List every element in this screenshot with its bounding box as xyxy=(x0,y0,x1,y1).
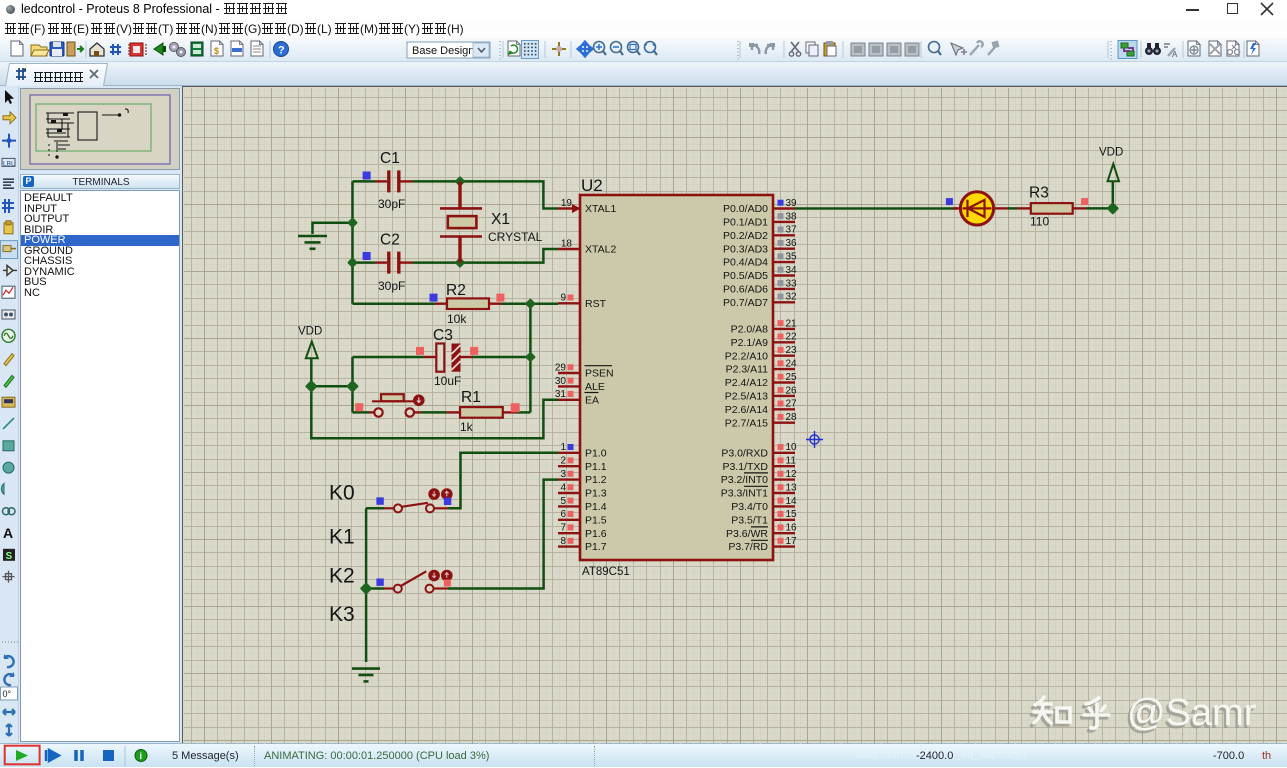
svg-text:3: 3 xyxy=(560,469,566,480)
pin 33 P0.6/AD6 xyxy=(723,278,797,295)
svg-text:P3.6/WR: P3.6/WR xyxy=(726,528,768,540)
wire K2 left xyxy=(366,587,384,590)
svg-text:P1.0: P1.0 xyxy=(585,447,607,459)
menu bar xyxy=(0,19,1287,38)
pin 29 PSEN xyxy=(555,362,614,379)
pin 32 P0.7/AD7 xyxy=(723,292,797,309)
svg-text:18: 18 xyxy=(561,238,573,249)
op-amp? no: microcontroller U2 AT89C51 body xyxy=(580,176,773,578)
wire C3 riser xyxy=(351,357,354,386)
svg-text:U2: U2 xyxy=(581,176,603,195)
svg-text:P0.3/AD3: P0.3/AD3 xyxy=(723,243,768,255)
svg-text:P3.0/RXD: P3.0/RXD xyxy=(721,447,768,459)
pin 36 P0.3/AD3 xyxy=(723,238,797,255)
svg-text:P0.4/AD4: P0.4/AD4 xyxy=(723,257,768,269)
svg-text:P1.6: P1.6 xyxy=(585,528,607,540)
RD overline xyxy=(751,539,768,541)
EA overline xyxy=(585,392,599,394)
LED (yellow, lit) xyxy=(946,192,1008,225)
svg-text:P1.4: P1.4 xyxy=(585,501,607,513)
wire R1 right xyxy=(516,411,530,414)
TERMINALS header xyxy=(20,174,180,189)
main toolbar xyxy=(0,38,1287,62)
svg-text:30pF: 30pF xyxy=(378,197,405,211)
svg-text:PSEN: PSEN xyxy=(585,368,614,380)
push button (reset) xyxy=(355,394,424,416)
pin 2 P1.1 xyxy=(558,456,607,473)
junction C2 tap xyxy=(349,259,357,267)
svg-text:P0.7/AD7: P0.7/AD7 xyxy=(723,297,768,309)
svg-text:P2.4/A12: P2.4/A12 xyxy=(725,377,768,389)
wire C2 right to XTAL2 xyxy=(413,249,559,263)
pin 4 P1.3 xyxy=(558,482,607,499)
svg-text:23: 23 xyxy=(786,345,798,356)
capacitor C2 30pF xyxy=(363,232,413,294)
svg-text:P2.3/A11: P2.3/A11 xyxy=(726,364,769,376)
svg-text:P0.2/AD2: P0.2/AD2 xyxy=(723,230,768,242)
watermark xyxy=(1032,692,1257,737)
INT1 overline xyxy=(744,485,768,487)
pin 28 P2.7/A15 xyxy=(725,412,797,429)
svg-text:P2.7/A15: P2.7/A15 xyxy=(725,417,768,429)
svg-text:8: 8 xyxy=(560,536,566,547)
svg-text:CRYSTAL: CRYSTAL xyxy=(488,230,543,244)
svg-text:A: A xyxy=(3,525,13,541)
pin 35 P0.4/AD4 xyxy=(723,252,797,269)
power terminal VDD (right) xyxy=(1099,147,1123,182)
ground (upper, near C1/C2) xyxy=(298,236,327,249)
wire reset net vertical xyxy=(529,304,532,413)
svg-text:K0: K0 xyxy=(329,482,355,505)
svg-text:22: 22 xyxy=(786,332,798,343)
svg-text:26: 26 xyxy=(786,385,798,396)
pin 15 P3.5/T1 xyxy=(731,509,797,526)
XTAL1 clock-input arrow xyxy=(572,204,581,213)
svg-text:0°: 0° xyxy=(3,689,12,699)
pin 22 P2.1/A9 xyxy=(731,332,797,349)
svg-text:12: 12 xyxy=(786,469,798,480)
svg-text:XTAL1: XTAL1 xyxy=(585,203,616,215)
pin 31 EA xyxy=(555,389,599,406)
pin 21 P2.0/A8 xyxy=(731,318,797,335)
svg-text:37: 37 xyxy=(786,225,798,236)
svg-text:P1.1: P1.1 xyxy=(585,461,607,473)
svg-text:R1: R1 xyxy=(461,389,481,406)
svg-text:P1.3: P1.3 xyxy=(585,488,607,500)
pin 12 P3.2/INT0 xyxy=(721,469,797,486)
svg-text:LBL: LBL xyxy=(3,160,15,167)
svg-text:ALE: ALE xyxy=(585,381,605,393)
overview mini-map xyxy=(20,88,180,170)
pin 16 P3.6/WR xyxy=(726,523,797,540)
svg-text:32: 32 xyxy=(786,292,798,303)
wire VDD link xyxy=(311,385,352,388)
pin 14 P3.4/T0 xyxy=(731,496,797,513)
schematic canvas xyxy=(182,86,1287,743)
svg-text:K1: K1 xyxy=(329,526,355,549)
junction VDD branch node xyxy=(348,382,358,392)
svg-text:P3.5/T1: P3.5/T1 xyxy=(731,514,768,526)
svg-text:29: 29 xyxy=(555,362,567,373)
svg-text:33: 33 xyxy=(786,278,798,289)
wire C3 left xyxy=(353,356,424,359)
pin 19 XTAL1 xyxy=(558,198,616,215)
PSEN overline xyxy=(585,365,613,367)
status bar xyxy=(0,743,1287,767)
svg-text:R2: R2 xyxy=(446,282,466,299)
wire EA tie-high net xyxy=(311,386,558,438)
svg-text:39: 39 xyxy=(786,198,798,209)
ground (switch common) xyxy=(352,669,380,682)
svg-text:19: 19 xyxy=(561,198,573,209)
svg-text:36: 36 xyxy=(786,238,798,249)
pin 17 P3.7/RD xyxy=(728,536,797,553)
wire C1 left xyxy=(353,180,376,183)
junction RST node xyxy=(527,300,535,308)
pin 37 P0.2/AD2 xyxy=(723,225,797,242)
wire R2 left xyxy=(353,302,436,305)
rotate/flip controls xyxy=(0,640,19,743)
svg-text:5: 5 xyxy=(560,496,566,507)
svg-text:16: 16 xyxy=(786,523,798,534)
svg-text:$: $ xyxy=(214,46,219,56)
wire C3 right xyxy=(473,356,531,359)
pin 10 P3.0/RXD xyxy=(721,442,797,459)
svg-text:VDD: VDD xyxy=(1099,147,1123,159)
svg-text:P0.0/AD0: P0.0/AD0 xyxy=(723,203,768,215)
svg-text:R3: R3 xyxy=(1029,185,1049,202)
wire K0 to P1.0 xyxy=(448,453,558,509)
svg-text:10uF: 10uF xyxy=(434,374,461,388)
svg-text:P3.3/INT1: P3.3/INT1 xyxy=(721,488,768,500)
junction XTAL top node xyxy=(456,178,464,186)
power terminal VDD (left) xyxy=(298,326,322,359)
origin/cursor marker xyxy=(806,431,823,448)
pin 27 P2.6/A14 xyxy=(725,399,797,416)
message info icon xyxy=(135,750,147,762)
svg-text:14: 14 xyxy=(786,496,798,507)
svg-text:P1.7: P1.7 xyxy=(585,541,607,553)
svg-text:28: 28 xyxy=(786,412,798,423)
junction XTAL bottom node xyxy=(456,259,464,267)
svg-text:AT89C51: AT89C51 xyxy=(582,566,630,578)
svg-text:?: ? xyxy=(278,45,285,57)
svg-text:P2.0/A8: P2.0/A8 xyxy=(731,324,769,336)
pin 24 P2.3/A11 xyxy=(726,359,797,376)
svg-text:15: 15 xyxy=(786,509,798,520)
svg-text:P2.6/A14: P2.6/A14 xyxy=(725,404,768,416)
pin 34 P0.5/AD5 xyxy=(723,265,797,282)
pin 38 P0.1/AD1 xyxy=(723,211,797,228)
svg-text:13: 13 xyxy=(786,482,798,493)
pin 8 P1.7 xyxy=(558,536,607,553)
svg-text:P2.2/A10: P2.2/A10 xyxy=(725,350,768,362)
svg-text:10: 10 xyxy=(786,442,798,453)
wire P0.0 to LED xyxy=(795,207,957,210)
svg-text:17: 17 xyxy=(786,536,798,547)
svg-text:EA: EA xyxy=(585,394,599,406)
svg-text:P3.7/RD: P3.7/RD xyxy=(728,541,768,553)
junction K2 common node xyxy=(361,584,371,594)
pin 23 P2.2/A10 xyxy=(725,345,797,362)
svg-text:P3.4/T0: P3.4/T0 xyxy=(731,501,768,513)
node label K2 xyxy=(329,564,355,587)
svg-text:P2.5/A13: P2.5/A13 xyxy=(725,391,768,403)
junction VDD node xyxy=(307,382,317,392)
pin 11 P3.1/TXD xyxy=(722,456,796,473)
svg-text:30: 30 xyxy=(555,376,567,387)
pin 1 P1.0 xyxy=(558,442,607,459)
wire C1 right to XTAL1 xyxy=(413,181,559,208)
svg-text:i: i xyxy=(140,751,143,761)
wire K0 left xyxy=(366,507,384,510)
svg-text:P1.5: P1.5 xyxy=(585,514,607,526)
svg-text:P1.2: P1.2 xyxy=(585,474,607,486)
run (play) button xyxy=(16,750,28,761)
svg-text:30pF: 30pF xyxy=(378,279,405,293)
svg-text:P0.5/AD5: P0.5/AD5 xyxy=(723,270,768,282)
svg-text:P3.2/INT0: P3.2/INT0 xyxy=(721,474,768,486)
svg-text:31: 31 xyxy=(555,389,567,400)
INT0 overline xyxy=(744,472,768,474)
pin 7 P1.6 xyxy=(558,523,607,540)
svg-text:C1: C1 xyxy=(380,150,400,167)
svg-text:27: 27 xyxy=(786,399,798,410)
svg-text:21: 21 xyxy=(786,318,798,329)
wire LED to R3 xyxy=(1008,207,1017,210)
pin 13 P3.3/INT1 xyxy=(721,482,797,499)
pin 18 XTAL2 xyxy=(558,238,616,255)
svg-text:4: 4 xyxy=(560,482,566,493)
svg-text:7: 7 xyxy=(560,523,566,534)
junction VDD right node xyxy=(1108,204,1118,214)
svg-text:Base Design: Base Design xyxy=(412,45,474,57)
pause button xyxy=(76,750,82,761)
resistor R3 110 xyxy=(1017,185,1088,229)
svg-text:35: 35 xyxy=(786,252,798,263)
svg-text:XTAL2: XTAL2 xyxy=(585,244,616,256)
wire VDD terminal stem xyxy=(310,359,313,387)
resistor R1 1k xyxy=(447,389,520,434)
svg-text:A: A xyxy=(1172,50,1178,59)
svg-text:P0.6/AD6: P0.6/AD6 xyxy=(723,284,768,296)
step button xyxy=(46,750,59,761)
svg-text:K2: K2 xyxy=(329,564,355,587)
pin 30 ALE xyxy=(555,376,605,393)
run button highlight box xyxy=(5,746,40,765)
switch K0 (closed) xyxy=(376,488,452,512)
wire VDD right stem xyxy=(1112,182,1115,209)
node label K3 xyxy=(329,603,355,626)
wire button to R1 xyxy=(421,411,447,414)
svg-text:RST: RST xyxy=(585,298,607,310)
node label K1 xyxy=(329,526,355,549)
junction C3 right node xyxy=(527,353,535,361)
svg-text:P0.1/AD1: P0.1/AD1 xyxy=(723,217,768,229)
pin 6 P1.5 xyxy=(558,509,607,526)
wire R3 to VDD xyxy=(1086,207,1113,210)
pin 5 P1.4 xyxy=(558,496,607,513)
svg-text:@Samr: @Samr xyxy=(1127,692,1257,734)
svg-text:VDD: VDD xyxy=(298,326,322,338)
wire C2 left xyxy=(353,261,376,264)
wire to upper ground xyxy=(313,223,353,234)
wire switch common vertical xyxy=(365,508,368,662)
svg-text:34: 34 xyxy=(786,265,798,276)
svg-text:11: 11 xyxy=(786,456,797,467)
svg-text:38: 38 xyxy=(786,211,798,222)
svg-text:2: 2 xyxy=(560,456,566,467)
wire button riser xyxy=(351,386,354,412)
svg-text:110: 110 xyxy=(1030,215,1049,229)
svg-text:X1: X1 xyxy=(491,211,510,228)
switch K2 (open) xyxy=(376,570,452,593)
svg-text:9: 9 xyxy=(560,293,566,304)
svg-text:C2: C2 xyxy=(380,232,400,249)
pin 26 P2.5/A13 xyxy=(725,385,797,402)
svg-text:1k: 1k xyxy=(460,420,474,434)
left panel background xyxy=(0,86,183,743)
capacitor C3 10uF (electrolytic) xyxy=(416,327,478,388)
wire button left xyxy=(353,411,370,414)
svg-text:P3.1/TXD: P3.1/TXD xyxy=(722,461,768,473)
svg-text:24: 24 xyxy=(786,359,798,370)
wire left vertical bus xyxy=(351,181,354,303)
svg-text:6: 6 xyxy=(560,509,566,520)
terminals list xyxy=(20,190,180,742)
title bar xyxy=(0,0,1287,19)
tab bar xyxy=(0,62,1287,86)
svg-text:1: 1 xyxy=(560,442,566,453)
pin 3 P1.2 xyxy=(558,469,607,486)
pin 9 RST xyxy=(558,293,607,310)
stop button xyxy=(103,750,114,761)
left mode-icon strip xyxy=(0,86,18,686)
crystal X1 CRYSTAL xyxy=(440,181,543,262)
svg-text:C3: C3 xyxy=(433,327,453,344)
svg-text:10k: 10k xyxy=(447,312,467,326)
svg-text:25: 25 xyxy=(786,372,798,383)
pin 25 P2.4/A12 xyxy=(725,372,797,389)
capacitor C1 30pF xyxy=(363,150,413,211)
junction gnd tap xyxy=(349,219,357,227)
WR overline xyxy=(751,526,768,528)
svg-text:P2.1/A9: P2.1/A9 xyxy=(731,337,769,349)
resistor R2 10k xyxy=(430,282,505,326)
pin 39 P0.0/AD0 xyxy=(723,198,797,215)
svg-text:S: S xyxy=(6,551,13,562)
svg-text:K3: K3 xyxy=(329,603,355,626)
node label K0 xyxy=(329,482,355,505)
wire K2 to P1.2 xyxy=(448,480,558,589)
wire R2 right to RST xyxy=(501,302,558,305)
